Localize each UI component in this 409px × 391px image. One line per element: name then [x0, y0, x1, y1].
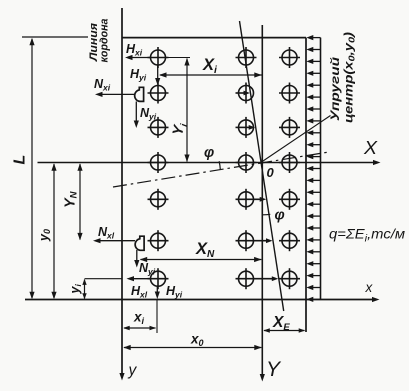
- wire extension line row7 to y_i dim: [85, 278, 123, 280]
- wire right border of cap: [305, 38, 307, 332]
- dimension Y_N: [79, 164, 81, 240]
- load arrow rung 4: [309, 84, 321, 86]
- dimension x_i: [124, 327, 156, 329]
- svg-text:y: y: [128, 362, 138, 379]
- force N_yi lower arrow: [136, 250, 138, 264]
- load arrow rung 3: [309, 72, 321, 74]
- load arrow rung 21: [309, 287, 321, 289]
- pile C3R3: [279, 117, 300, 138]
- pile C1R4: [148, 152, 169, 173]
- pile C2R2: [236, 83, 254, 104]
- pile C1R6: [148, 230, 169, 251]
- svg-text:x: x: [365, 280, 374, 295]
- pile C1R3: [148, 117, 169, 138]
- dimension X_E: [264, 330, 305, 332]
- svg-text:кордона: кордона: [99, 19, 111, 63]
- load arrow rung 19: [309, 263, 321, 265]
- inclined pile symbol D2: [135, 236, 144, 250]
- load arrow rung 14: [309, 203, 321, 205]
- pile C2R1: [236, 47, 257, 68]
- pile C2R6: [236, 230, 268, 251]
- Y axis vertical line: [261, 25, 263, 379]
- dimension x_0: [124, 347, 261, 349]
- inclined pile symbol D1: [135, 87, 144, 101]
- angle phi upper arc: [219, 161, 220, 169]
- load arrow rung 8: [309, 132, 321, 134]
- load arrow rung 5: [309, 96, 321, 98]
- svg-text:φ: φ: [275, 208, 285, 224]
- force H_yi lower arrow: [156, 286, 158, 296]
- load arrow rung 2: [309, 60, 321, 62]
- pile C3R1: [279, 47, 300, 68]
- pile C1R5: [148, 189, 169, 210]
- load arrow rung 15: [309, 215, 321, 217]
- pile C1R7: [148, 268, 169, 289]
- pile C2R7: [236, 268, 274, 289]
- load arrow rung 12: [309, 179, 321, 181]
- svg-text:Y: Y: [266, 358, 282, 381]
- load arrow rung 22: [309, 298, 321, 300]
- force N_xi arrow: [98, 93, 135, 95]
- load arrow rung 18: [309, 251, 321, 253]
- svg-text:L: L: [12, 155, 29, 165]
- load arrow rung 11: [309, 168, 321, 170]
- svg-text:0: 0: [267, 165, 275, 180]
- dimension y_i: [84, 280, 86, 299]
- pile C3R5: [279, 189, 300, 210]
- svg-text:центр(x0,у0): центр(x0,у0): [344, 32, 357, 123]
- pile C1R2: [148, 83, 169, 104]
- distributed load strip right rail: [320, 38, 322, 300]
- svg-text:X: X: [363, 138, 378, 158]
- force N_yi arrow: [135, 102, 137, 125]
- wire left border / cordon line / y axis: [121, 8, 123, 378]
- pile C3R6: [279, 230, 300, 251]
- load arrow rung 1: [309, 49, 321, 51]
- load arrow rung 10: [309, 156, 321, 158]
- pile C1R1: [148, 47, 169, 68]
- load arrow rung 20: [309, 275, 321, 277]
- pile C2R5: [236, 189, 262, 210]
- leader line from O to elastic centre label: [263, 116, 331, 162]
- load arrow rung 7: [309, 120, 321, 122]
- pile C3R7: [279, 268, 300, 289]
- slanted pile axis line through O (angle phi): [240, 21, 284, 311]
- dash-dot rotated axis through O at angle phi: [113, 152, 327, 187]
- pile C2R3: [236, 117, 254, 138]
- load arrow rung 13: [309, 191, 321, 193]
- dimension X_i: [160, 74, 262, 76]
- force H_xi arrow: [128, 57, 151, 59]
- dimension L: [31, 39, 33, 298]
- wire top extension line: [22, 36, 88, 38]
- force H_xl arrow: [130, 278, 151, 280]
- angle phi lower arc: [263, 213, 271, 216]
- force H_yi arrow: [157, 65, 159, 83]
- load arrow rung 6: [309, 108, 321, 110]
- svg-text:Упругий: Упругий: [330, 57, 342, 121]
- wire top border of cap: [122, 37, 307, 39]
- X axis horizontal line: [38, 162, 379, 164]
- load arrow rung 16: [309, 227, 321, 229]
- svg-text:φ: φ: [204, 145, 214, 161]
- pile C2R4: [236, 152, 257, 173]
- wire bottom border / x axis: [25, 299, 377, 301]
- dimension Y_i: [186, 59, 188, 162]
- load arrow rung 17: [309, 239, 321, 241]
- load arrow rung 0: [309, 37, 321, 39]
- pile C3R2: [279, 83, 300, 104]
- wire extension line pile R1 to Y_i dim: [169, 57, 191, 59]
- force N_xl arrow: [96, 240, 135, 242]
- pile C3R4: [279, 152, 300, 173]
- wire pile axis extension below cap: [156, 300, 158, 334]
- load arrow rung 9: [309, 144, 321, 146]
- dimension y0: [53, 164, 55, 298]
- dimension X_N: [141, 259, 262, 261]
